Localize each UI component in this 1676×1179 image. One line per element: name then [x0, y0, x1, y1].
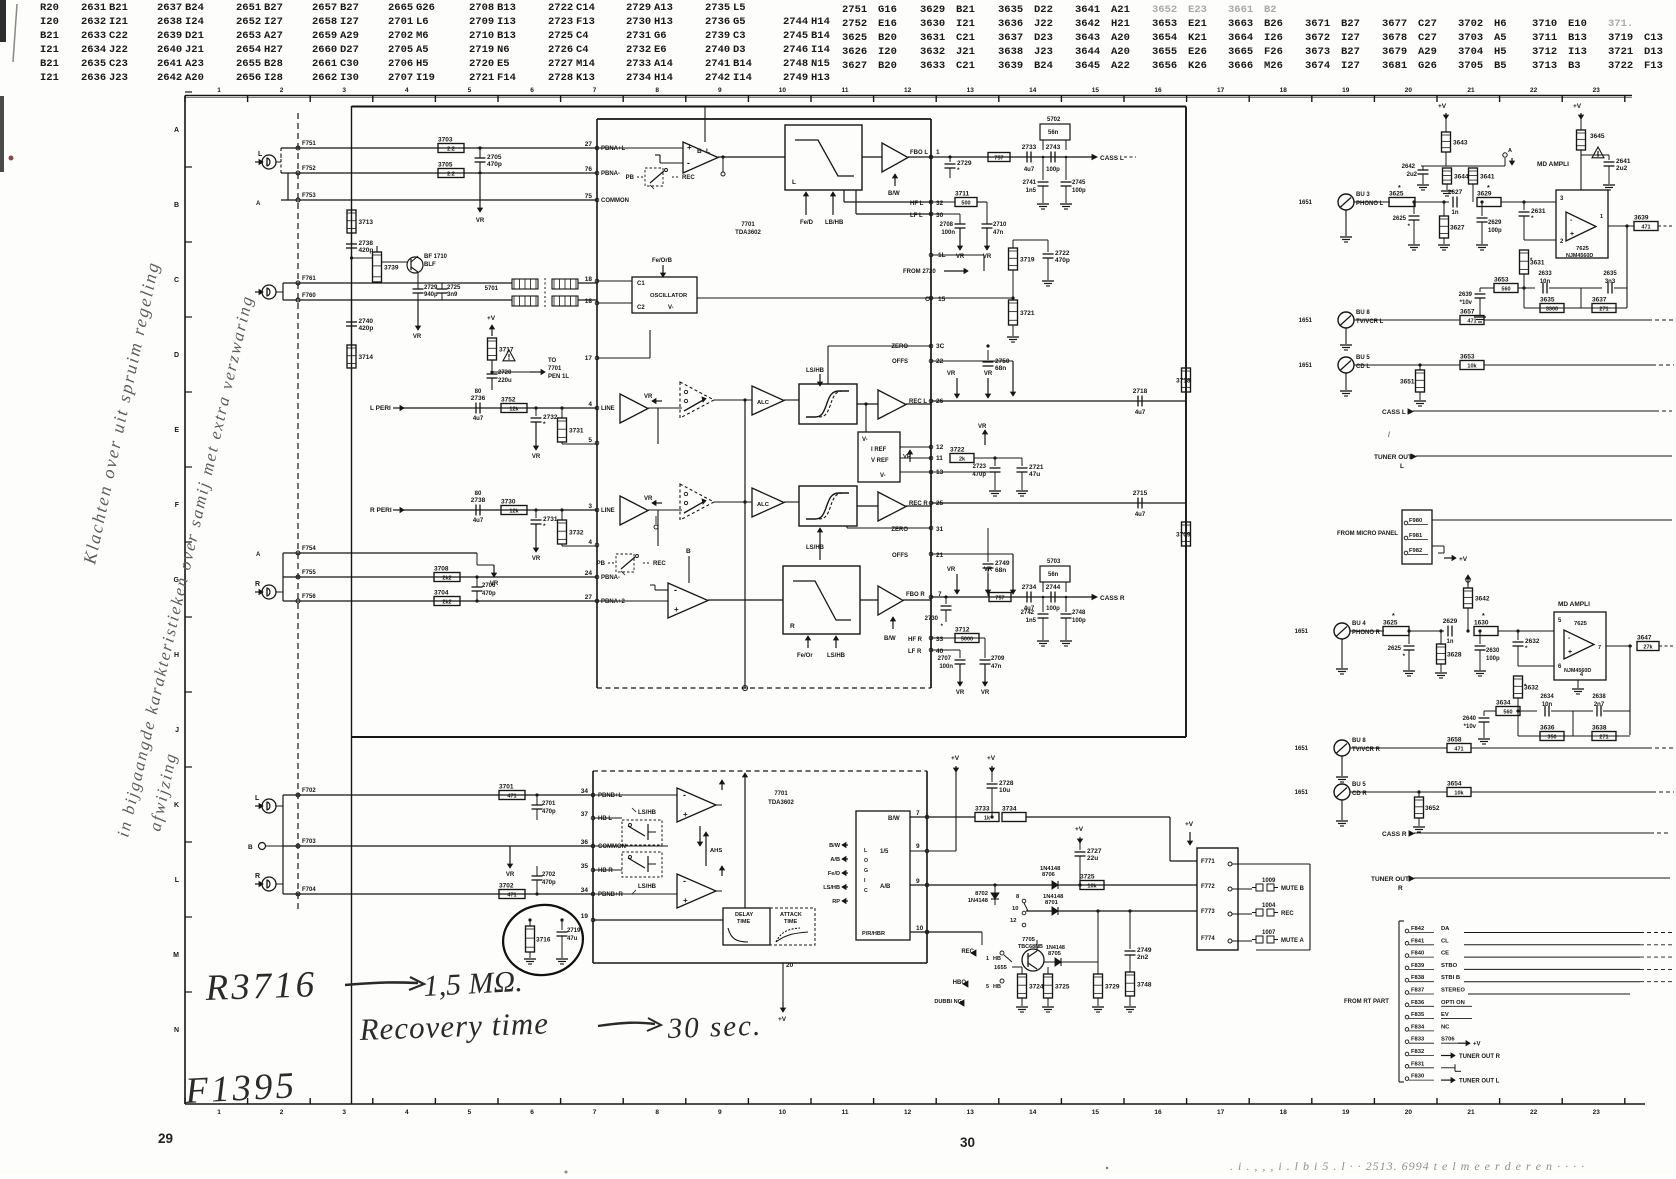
- svg-text:3717: 3717: [499, 347, 514, 354]
- svg-text:3633: 3633: [920, 60, 945, 72]
- svg-text:PBNA+L: PBNA+L: [601, 146, 626, 152]
- svg-text:VR: VR: [947, 567, 956, 573]
- svg-text:3637: 3637: [998, 32, 1023, 44]
- svg-text:470p: 470p: [542, 809, 556, 815]
- svg-text:3643: 3643: [1453, 140, 1468, 147]
- svg-text:3644: 3644: [1454, 174, 1469, 181]
- svg-text:I28: I28: [264, 72, 283, 84]
- svg-text:OFFS: OFFS: [892, 359, 908, 365]
- svg-text:2729: 2729: [626, 2, 651, 14]
- svg-text:3626: 3626: [842, 46, 867, 58]
- svg-text:TDA3602: TDA3602: [768, 800, 794, 806]
- svg-text:3647: 3647: [1637, 635, 1652, 642]
- svg-text:2721: 2721: [1029, 464, 1044, 471]
- svg-text:940p: 940p: [424, 292, 438, 298]
- svg-text:MD AMPLI: MD AMPLI: [1558, 601, 1590, 608]
- svg-text:G6: G6: [654, 30, 667, 42]
- svg-text:B/W: B/W: [829, 843, 841, 849]
- svg-text:3625: 3625: [1383, 620, 1398, 627]
- svg-text:F832: F832: [1411, 1049, 1424, 1055]
- svg-text:2720: 2720: [469, 58, 494, 70]
- svg-text:BLF: BLF: [424, 262, 436, 268]
- svg-text:2k: 2k: [959, 457, 966, 463]
- svg-text:FROM RT PART: FROM RT PART: [1344, 999, 1389, 1005]
- svg-text:LS/HB: LS/HB: [638, 810, 657, 816]
- svg-text:J22: J22: [1034, 18, 1053, 30]
- svg-text:2701: 2701: [542, 801, 556, 807]
- svg-text:2705: 2705: [487, 154, 502, 161]
- svg-text:-: -: [687, 158, 690, 168]
- svg-text:2707: 2707: [938, 656, 952, 662]
- svg-text:19: 19: [1342, 1109, 1350, 1116]
- svg-text:+: +: [674, 605, 679, 614]
- svg-text:3705: 3705: [1458, 60, 1483, 72]
- svg-text:D23: D23: [1034, 32, 1053, 44]
- svg-text:2: 2: [280, 1109, 284, 1116]
- svg-text:K13: K13: [576, 72, 595, 84]
- svg-text:C27: C27: [1418, 18, 1437, 30]
- svg-text:3722: 3722: [950, 447, 965, 454]
- svg-text:27: 27: [585, 141, 593, 148]
- svg-text:16: 16: [1154, 87, 1162, 94]
- svg-text:1651: 1651: [1295, 629, 1309, 635]
- svg-text:3673: 3673: [1305, 46, 1330, 58]
- svg-text:D: D: [174, 352, 179, 359]
- svg-text:8702: 8702: [975, 891, 988, 897]
- svg-text:1651: 1651: [1299, 363, 1313, 369]
- svg-text:47u: 47u: [567, 936, 578, 942]
- svg-text:9: 9: [916, 878, 920, 885]
- svg-text:CASS L: CASS L: [1382, 409, 1406, 416]
- svg-text:2728: 2728: [548, 72, 573, 84]
- svg-text:N: N: [174, 1027, 179, 1034]
- svg-text:1004: 1004: [1262, 903, 1276, 909]
- svg-text:B13: B13: [497, 30, 516, 42]
- svg-text:3638: 3638: [1592, 725, 1607, 732]
- svg-text:5703: 5703: [1047, 559, 1061, 565]
- svg-text:36: 36: [581, 839, 589, 846]
- svg-text:3733: 3733: [975, 806, 990, 813]
- svg-text:B: B: [174, 202, 179, 209]
- svg-text:F753: F753: [302, 193, 316, 199]
- svg-text:F761: F761: [302, 276, 316, 282]
- svg-text:3657: 3657: [1460, 309, 1475, 316]
- svg-text:C4: C4: [576, 30, 589, 42]
- svg-text:REC: REC: [682, 175, 695, 181]
- svg-text:3n9: 3n9: [447, 292, 458, 298]
- svg-text:1: 1: [217, 87, 221, 94]
- svg-text:7: 7: [1598, 645, 1601, 651]
- svg-text:68n: 68n: [995, 365, 1006, 372]
- svg-text:17: 17: [585, 355, 593, 362]
- svg-text:3710: 3710: [1532, 18, 1557, 30]
- svg-text:C: C: [174, 277, 179, 284]
- svg-text:LINE: LINE: [601, 508, 615, 514]
- svg-text:B24: B24: [1034, 60, 1053, 72]
- svg-text:2u2: 2u2: [1407, 172, 1418, 178]
- svg-text:B27: B27: [340, 2, 359, 14]
- svg-text:47u: 47u: [1029, 471, 1040, 478]
- svg-text:BU 5: BU 5: [1356, 355, 1370, 361]
- svg-text:STEREO: STEREO: [1441, 988, 1465, 994]
- svg-text:R: R: [790, 623, 795, 630]
- svg-text:32: 32: [936, 200, 944, 207]
- svg-text:5: 5: [468, 1109, 472, 1116]
- svg-text:2.2: 2.2: [447, 147, 455, 153]
- svg-text:2736: 2736: [705, 16, 730, 28]
- svg-text:+V: +V: [778, 1016, 787, 1023]
- svg-text:1k: 1k: [984, 816, 991, 822]
- svg-text:B/W: B/W: [884, 636, 896, 642]
- svg-text:+V: +V: [987, 755, 996, 762]
- svg-text:3: 3: [588, 503, 592, 510]
- svg-text:O: O: [864, 858, 868, 864]
- svg-text:PBNA+2: PBNA+2: [601, 599, 626, 605]
- svg-text:3716: 3716: [536, 937, 551, 944]
- svg-text:FBO L: FBO L: [910, 150, 928, 156]
- svg-text:2749: 2749: [783, 72, 808, 84]
- svg-text:ALC: ALC: [757, 400, 770, 406]
- svg-text:8705: 8705: [1048, 951, 1062, 957]
- svg-text:TUNER OUT: TUNER OUT: [1371, 876, 1409, 883]
- svg-text:HB: HB: [993, 984, 1001, 990]
- svg-text:3654: 3654: [1447, 781, 1462, 788]
- svg-text:2734: 2734: [626, 72, 651, 84]
- svg-text:K21: K21: [1188, 32, 1207, 44]
- svg-text:I13: I13: [1568, 46, 1587, 58]
- svg-text:STBO: STBO: [1441, 963, 1458, 969]
- svg-text:PB: PB: [597, 561, 606, 567]
- svg-text:I14: I14: [733, 72, 752, 84]
- svg-text:AHS: AHS: [710, 848, 722, 854]
- svg-text:LB/HB: LB/HB: [825, 220, 844, 226]
- svg-text:F830: F830: [1411, 1074, 1424, 1080]
- svg-text:C4: C4: [576, 44, 589, 56]
- svg-text:CE: CE: [1441, 951, 1449, 957]
- svg-text:K: K: [174, 802, 179, 809]
- svg-text:12k: 12k: [509, 509, 519, 515]
- svg-text:371.: 371.: [1608, 18, 1633, 30]
- svg-text:34: 34: [581, 887, 589, 894]
- svg-text:9: 9: [718, 1109, 722, 1116]
- svg-text:B27: B27: [1341, 46, 1360, 58]
- svg-text:3638: 3638: [998, 46, 1023, 58]
- svg-text:2633: 2633: [81, 30, 106, 42]
- svg-text:MUTE A: MUTE A: [1281, 938, 1304, 944]
- svg-text:STBI B: STBI B: [1441, 975, 1460, 981]
- svg-text:3625: 3625: [842, 32, 867, 44]
- svg-text:3729: 3729: [1105, 984, 1120, 991]
- svg-text:VR: VR: [956, 690, 965, 696]
- svg-text:22: 22: [1530, 87, 1538, 94]
- svg-text:9: 9: [916, 843, 920, 850]
- svg-text:271: 271: [1599, 307, 1608, 313]
- svg-text:2631: 2631: [81, 2, 106, 14]
- svg-text:R20: R20: [40, 2, 59, 14]
- svg-text:PBNB+L: PBNB+L: [598, 793, 623, 799]
- svg-text:1: 1: [1600, 214, 1603, 220]
- svg-text:2738: 2738: [471, 497, 486, 504]
- svg-text:16: 16: [1154, 1109, 1162, 1116]
- svg-text:J22: J22: [109, 44, 128, 56]
- svg-text:2708: 2708: [940, 222, 954, 228]
- svg-text:3645: 3645: [1590, 133, 1605, 140]
- svg-text:J23: J23: [1034, 46, 1053, 58]
- svg-text:3703: 3703: [1458, 32, 1483, 44]
- svg-text:DELAY: DELAY: [735, 912, 753, 918]
- svg-text:2640: 2640: [1463, 716, 1477, 722]
- svg-text:757: 757: [995, 596, 1004, 602]
- svg-text:4u7: 4u7: [1135, 410, 1146, 416]
- svg-text:3666: 3666: [1228, 60, 1253, 72]
- svg-text:3658: 3658: [1447, 737, 1462, 744]
- svg-text:+: +: [1570, 231, 1574, 238]
- svg-text:12: 12: [936, 444, 944, 451]
- svg-text:2738: 2738: [359, 240, 374, 247]
- svg-text:HB L: HB L: [598, 816, 612, 822]
- svg-text:3665: 3665: [1228, 46, 1253, 58]
- svg-text:3656: 3656: [1152, 60, 1177, 72]
- svg-text:10: 10: [916, 925, 924, 932]
- svg-text:2705: 2705: [388, 44, 413, 56]
- svg-text:3300: 3300: [1546, 307, 1558, 313]
- svg-text:20: 20: [786, 962, 794, 969]
- svg-text:G16: G16: [878, 4, 897, 16]
- svg-text:D3: D3: [733, 44, 746, 56]
- svg-text:F752: F752: [302, 166, 316, 172]
- svg-text:2721: 2721: [469, 72, 494, 84]
- svg-text:G26: G26: [1418, 60, 1437, 72]
- svg-text:A5: A5: [1494, 32, 1507, 44]
- svg-text:F774: F774: [1201, 936, 1215, 942]
- svg-text:271: 271: [1599, 735, 1608, 741]
- svg-text:31: 31: [936, 526, 944, 533]
- svg-text:*10v: *10v: [1464, 724, 1477, 730]
- svg-text:TIME: TIME: [784, 919, 797, 925]
- svg-text:2u2: 2u2: [1616, 165, 1628, 172]
- svg-text:C23: C23: [109, 58, 128, 70]
- svg-text:3725: 3725: [1080, 874, 1095, 881]
- svg-text:1651: 1651: [1295, 746, 1309, 752]
- svg-text:Cr: Cr: [925, 296, 933, 303]
- svg-text:470p: 470p: [542, 880, 556, 886]
- svg-text:1N4148: 1N4148: [1046, 945, 1065, 951]
- svg-text:N15: N15: [811, 58, 830, 70]
- svg-text:I21: I21: [40, 44, 59, 56]
- svg-text:TUNER OUT: TUNER OUT: [1374, 454, 1412, 461]
- svg-text:30: 30: [936, 212, 944, 219]
- svg-text:F756: F756: [302, 594, 316, 600]
- svg-text:M14: M14: [576, 58, 595, 70]
- svg-text:MUTE B: MUTE B: [1281, 886, 1305, 892]
- svg-text:2729: 2729: [957, 160, 972, 167]
- svg-text:3713: 3713: [359, 219, 374, 226]
- svg-text:G5: G5: [733, 16, 746, 28]
- svg-text:V-: V-: [668, 305, 674, 311]
- svg-text:3705: 3705: [438, 162, 453, 169]
- svg-text:2744: 2744: [783, 16, 808, 28]
- svg-text:3628: 3628: [1447, 652, 1462, 659]
- svg-text:3637: 3637: [1592, 297, 1607, 304]
- svg-text:2741: 2741: [1023, 180, 1037, 186]
- svg-text:M: M: [173, 952, 179, 959]
- svg-text:E: E: [174, 427, 179, 434]
- svg-text:2642: 2642: [157, 72, 182, 84]
- svg-text:B: B: [248, 844, 253, 851]
- svg-text:2708: 2708: [469, 2, 494, 14]
- svg-text:BU 3: BU 3: [1356, 192, 1370, 198]
- svg-text:A21: A21: [1111, 4, 1130, 16]
- svg-text:*10v: *10v: [1460, 300, 1473, 306]
- svg-text:47n: 47n: [991, 664, 1002, 670]
- svg-text:2743: 2743: [1046, 144, 1061, 151]
- svg-text:35: 35: [581, 863, 589, 870]
- svg-text:10k: 10k: [1467, 364, 1477, 370]
- svg-text:2651: 2651: [236, 2, 261, 14]
- svg-text:A: A: [256, 201, 261, 207]
- svg-text:471: 471: [507, 893, 516, 899]
- svg-text:. i . , , , i . l b i 5 . l: . i . , , , i . l b i 5 . l · · 2513. 69…: [1230, 1159, 1585, 1173]
- svg-text:DUBBI NG: DUBBI NG: [934, 999, 962, 1005]
- svg-text:10: 10: [779, 87, 787, 94]
- svg-text:3644: 3644: [1075, 46, 1100, 58]
- svg-text:Recovery time: Recovery time: [358, 1005, 550, 1047]
- svg-text:3731: 3731: [569, 428, 584, 435]
- svg-text:3677: 3677: [1382, 18, 1407, 30]
- svg-text:R: R: [255, 873, 260, 880]
- svg-text:1n: 1n: [1451, 210, 1458, 216]
- svg-text:2736: 2736: [471, 395, 486, 402]
- svg-text:5: 5: [468, 87, 472, 94]
- svg-text:I30: I30: [340, 72, 359, 84]
- svg-text:ATTACK: ATTACK: [780, 912, 802, 918]
- svg-text:2748: 2748: [1072, 610, 1086, 616]
- svg-text:F755: F755: [302, 570, 316, 576]
- svg-text:A23: A23: [185, 58, 204, 70]
- svg-text:RP: RP: [832, 899, 840, 905]
- svg-text:B3: B3: [1568, 60, 1581, 72]
- svg-text:LS/HB: LS/HB: [827, 653, 846, 659]
- svg-text:+V: +V: [1573, 103, 1582, 110]
- svg-text:A27: A27: [264, 30, 283, 42]
- svg-text:8: 8: [655, 87, 659, 94]
- svg-text:21: 21: [936, 552, 944, 559]
- svg-text:C14: C14: [576, 2, 595, 14]
- svg-text:E10: E10: [1568, 18, 1587, 30]
- svg-text:2749: 2749: [995, 560, 1010, 567]
- svg-text:REC: REC: [653, 561, 666, 567]
- svg-text:S706: S706: [1441, 1037, 1455, 1043]
- svg-text:L5: L5: [733, 2, 746, 14]
- svg-text:1N4148: 1N4148: [1043, 894, 1064, 900]
- svg-text:E5: E5: [497, 58, 510, 70]
- svg-text:6: 6: [530, 87, 534, 94]
- svg-text:E21: E21: [1188, 18, 1207, 30]
- svg-text:G26: G26: [416, 2, 435, 14]
- svg-text:2706: 2706: [482, 583, 496, 589]
- svg-text:2630: 2630: [1486, 648, 1500, 654]
- svg-text:500: 500: [961, 201, 970, 207]
- svg-text:2727: 2727: [548, 58, 573, 70]
- svg-text:-: -: [674, 585, 677, 595]
- svg-text:2748: 2748: [783, 58, 808, 70]
- svg-text:VR: VR: [644, 496, 653, 502]
- svg-text:3639: 3639: [998, 60, 1023, 72]
- svg-text:15: 15: [1092, 87, 1100, 94]
- svg-text:80: 80: [475, 491, 482, 497]
- svg-text:3641: 3641: [1480, 174, 1495, 181]
- svg-text:22: 22: [1530, 1109, 1538, 1116]
- svg-text:1n5: 1n5: [1026, 188, 1037, 194]
- svg-text:B24: B24: [185, 2, 204, 14]
- svg-text:A20: A20: [1111, 46, 1130, 58]
- svg-text:2k2: 2k2: [442, 576, 451, 582]
- svg-text:D21: D21: [185, 30, 204, 42]
- svg-text:B27: B27: [1341, 18, 1360, 30]
- svg-text:2739: 2739: [705, 30, 730, 42]
- svg-text:7701: 7701: [741, 222, 755, 228]
- svg-text:4u7: 4u7: [1024, 167, 1035, 173]
- svg-text:2732: 2732: [543, 414, 558, 421]
- svg-text:2629: 2629: [1443, 618, 1458, 625]
- svg-text:VR: VR: [947, 371, 956, 377]
- svg-text:7701: 7701: [548, 366, 562, 372]
- svg-text:+V: +V: [951, 755, 960, 762]
- svg-text:23: 23: [1593, 1109, 1601, 1116]
- svg-text:2752: 2752: [842, 18, 867, 30]
- svg-text:4: 4: [405, 87, 409, 94]
- svg-text:5701: 5701: [485, 286, 499, 292]
- svg-text:2749: 2749: [1137, 947, 1152, 954]
- svg-text:100n: 100n: [939, 664, 953, 670]
- svg-text:3664: 3664: [1228, 32, 1253, 44]
- svg-text:F702: F702: [302, 788, 316, 794]
- svg-text:2742: 2742: [705, 72, 730, 84]
- svg-text:4u7: 4u7: [1135, 512, 1146, 518]
- svg-text:5702: 5702: [1047, 117, 1061, 123]
- svg-text:3719: 3719: [1020, 257, 1035, 264]
- svg-text:3635: 3635: [1540, 297, 1555, 304]
- svg-text:757: 757: [994, 156, 1003, 162]
- svg-text:TDA3602: TDA3602: [735, 230, 761, 236]
- svg-text:2725: 2725: [548, 30, 573, 42]
- svg-text:3629: 3629: [1477, 191, 1492, 198]
- svg-text:ZERO: ZERO: [891, 344, 908, 350]
- svg-text:F837: F837: [1411, 988, 1424, 994]
- svg-text:HB: HB: [993, 956, 1001, 962]
- svg-text:I20: I20: [40, 16, 59, 28]
- svg-text:+V: +V: [1185, 821, 1194, 828]
- svg-text:2.2: 2.2: [447, 172, 455, 178]
- svg-text:33: 33: [936, 636, 944, 643]
- svg-text:2740: 2740: [705, 44, 730, 56]
- svg-text:3708: 3708: [434, 566, 449, 573]
- svg-text:3730: 3730: [501, 499, 516, 506]
- svg-text:471: 471: [1454, 747, 1463, 753]
- svg-text:-: -: [683, 790, 686, 800]
- svg-text:B14: B14: [811, 30, 830, 42]
- svg-text:2635: 2635: [1603, 271, 1617, 277]
- svg-text:H27: H27: [264, 44, 283, 56]
- svg-text:2634: 2634: [1540, 694, 1554, 700]
- svg-text:VR: VR: [506, 872, 515, 878]
- svg-text:DA: DA: [1441, 926, 1450, 932]
- svg-text:F836: F836: [1411, 1000, 1425, 1006]
- svg-text:30: 30: [960, 1135, 975, 1150]
- svg-text:Fe/D: Fe/D: [828, 871, 840, 877]
- svg-text:3653: 3653: [1460, 354, 1475, 361]
- svg-text:1007: 1007: [1262, 930, 1276, 936]
